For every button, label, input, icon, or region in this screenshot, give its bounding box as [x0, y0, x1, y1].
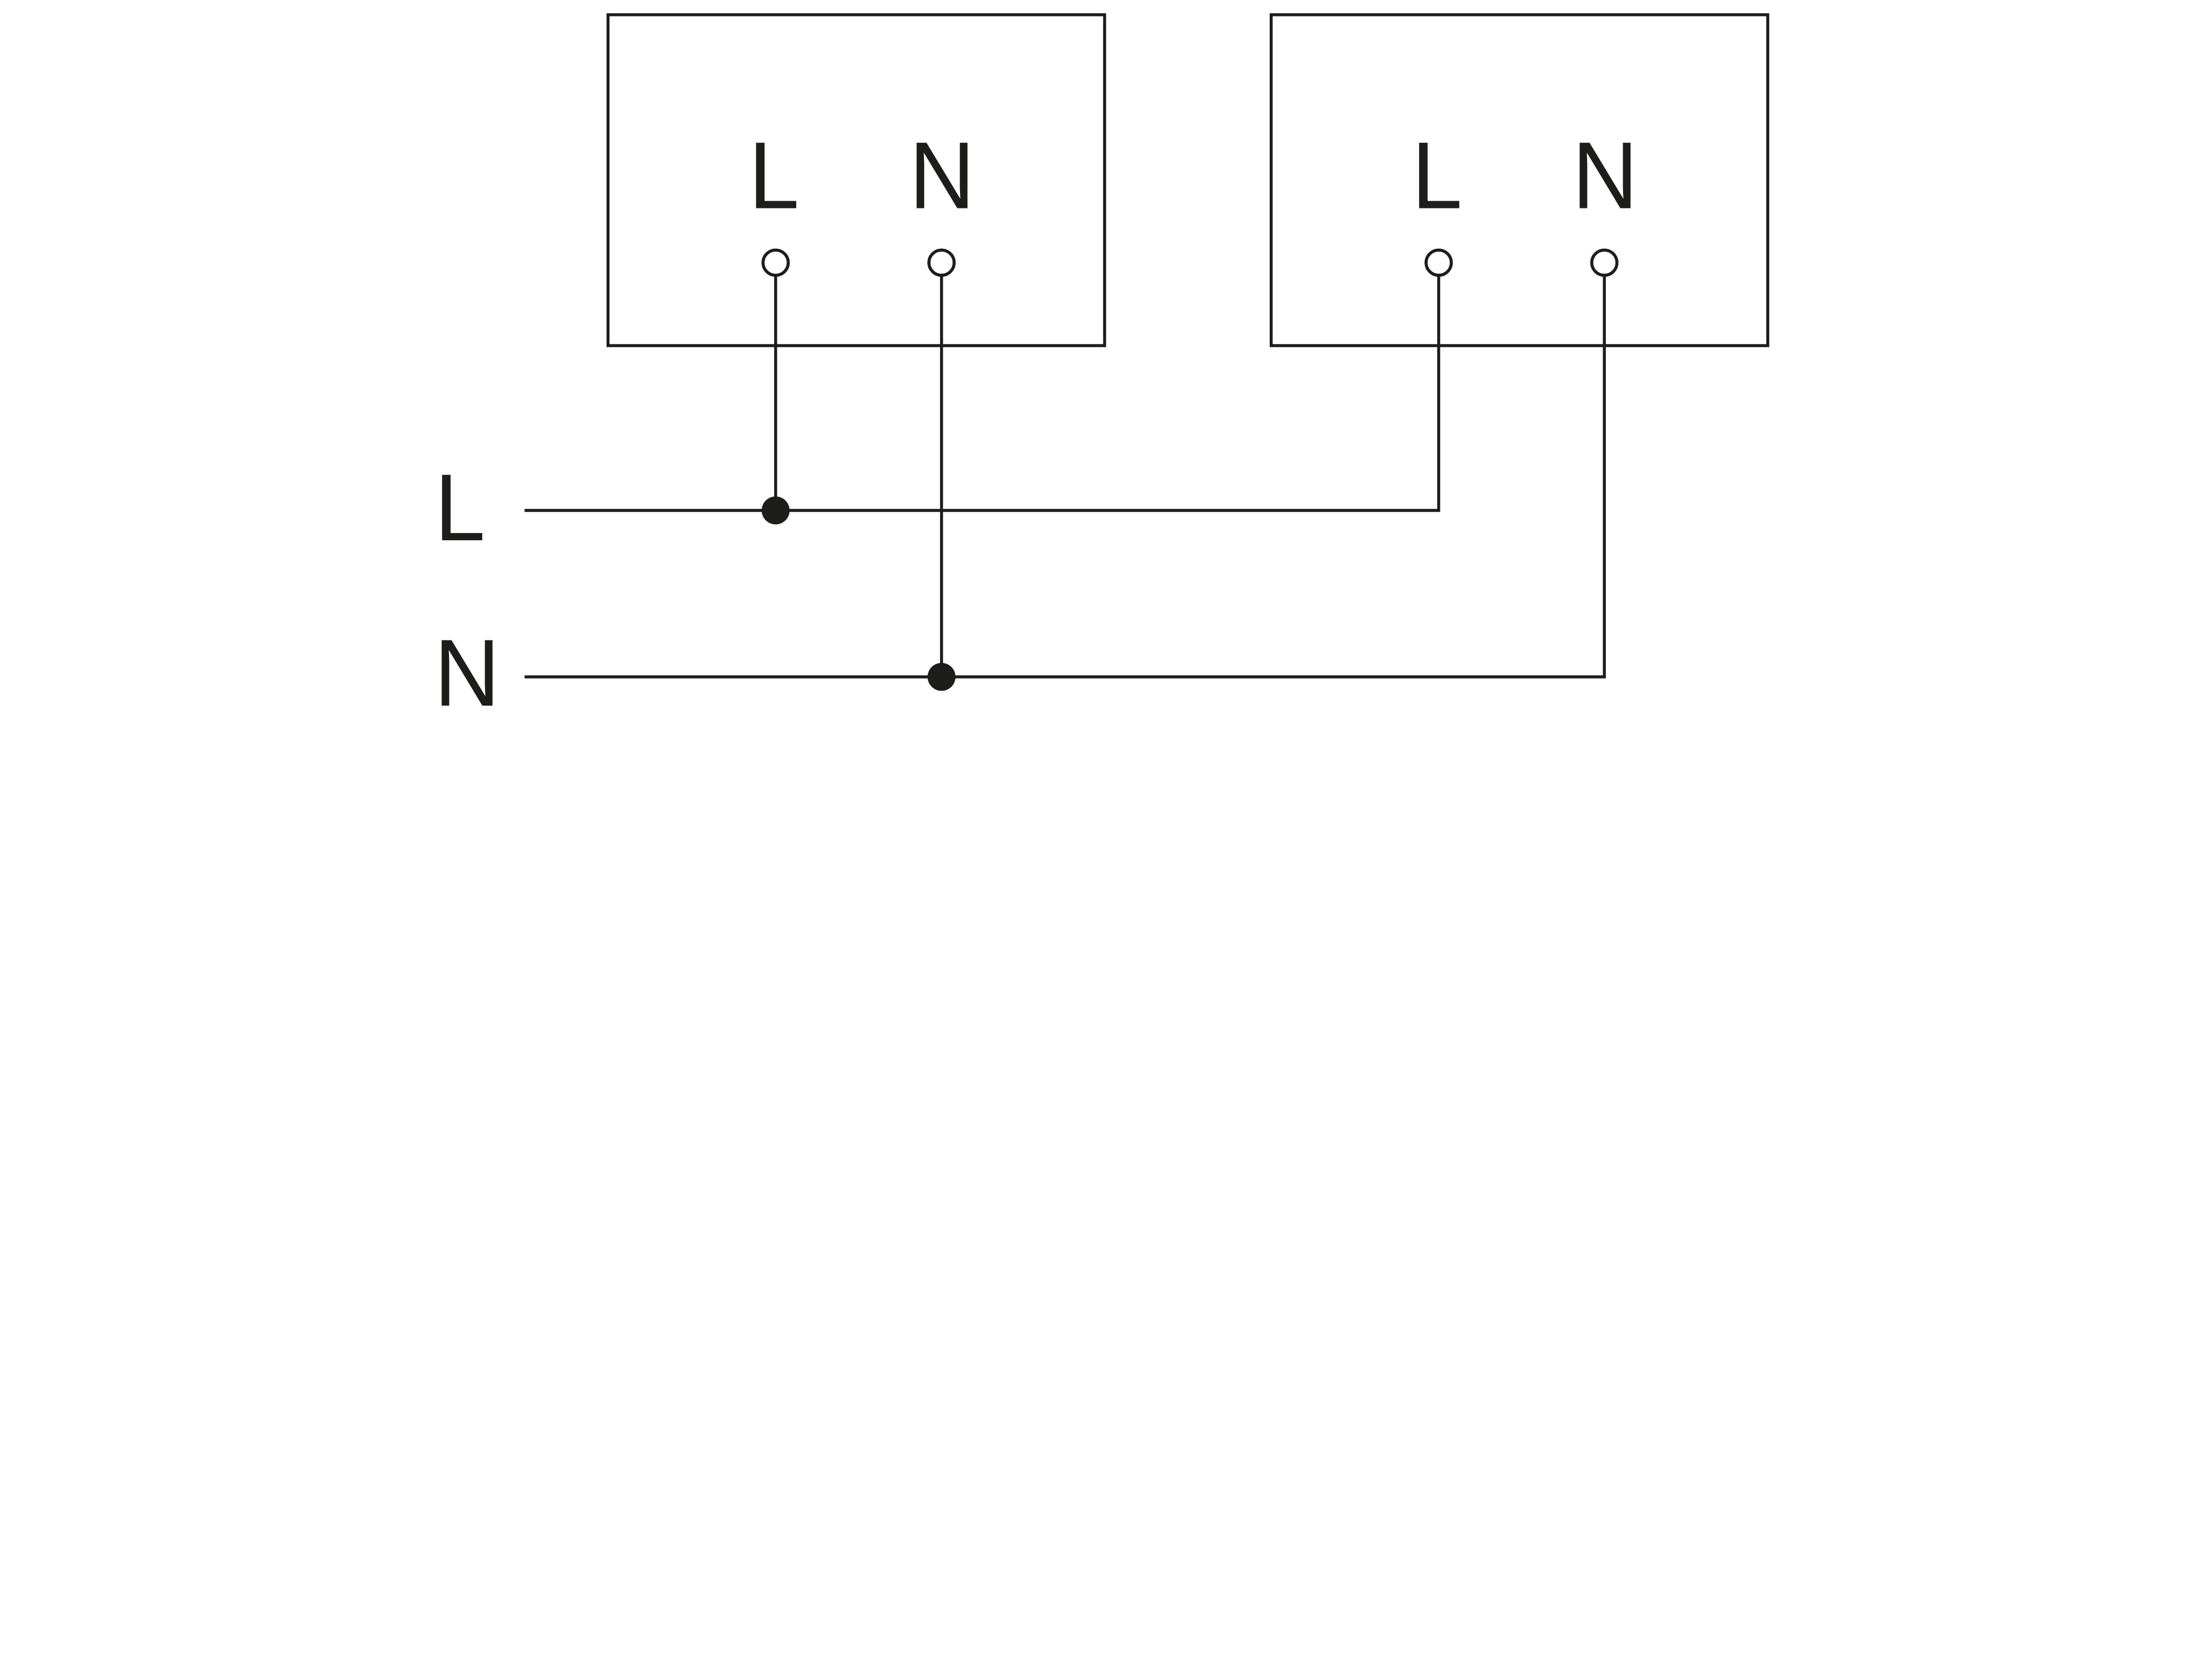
svg-text:N: N: [1572, 122, 1638, 228]
svg-text:L: L: [1412, 122, 1463, 228]
svg-text:N: N: [909, 122, 975, 228]
svg-text:L: L: [749, 122, 800, 228]
svg-text:L: L: [435, 455, 486, 561]
svg-text:N: N: [434, 620, 500, 726]
